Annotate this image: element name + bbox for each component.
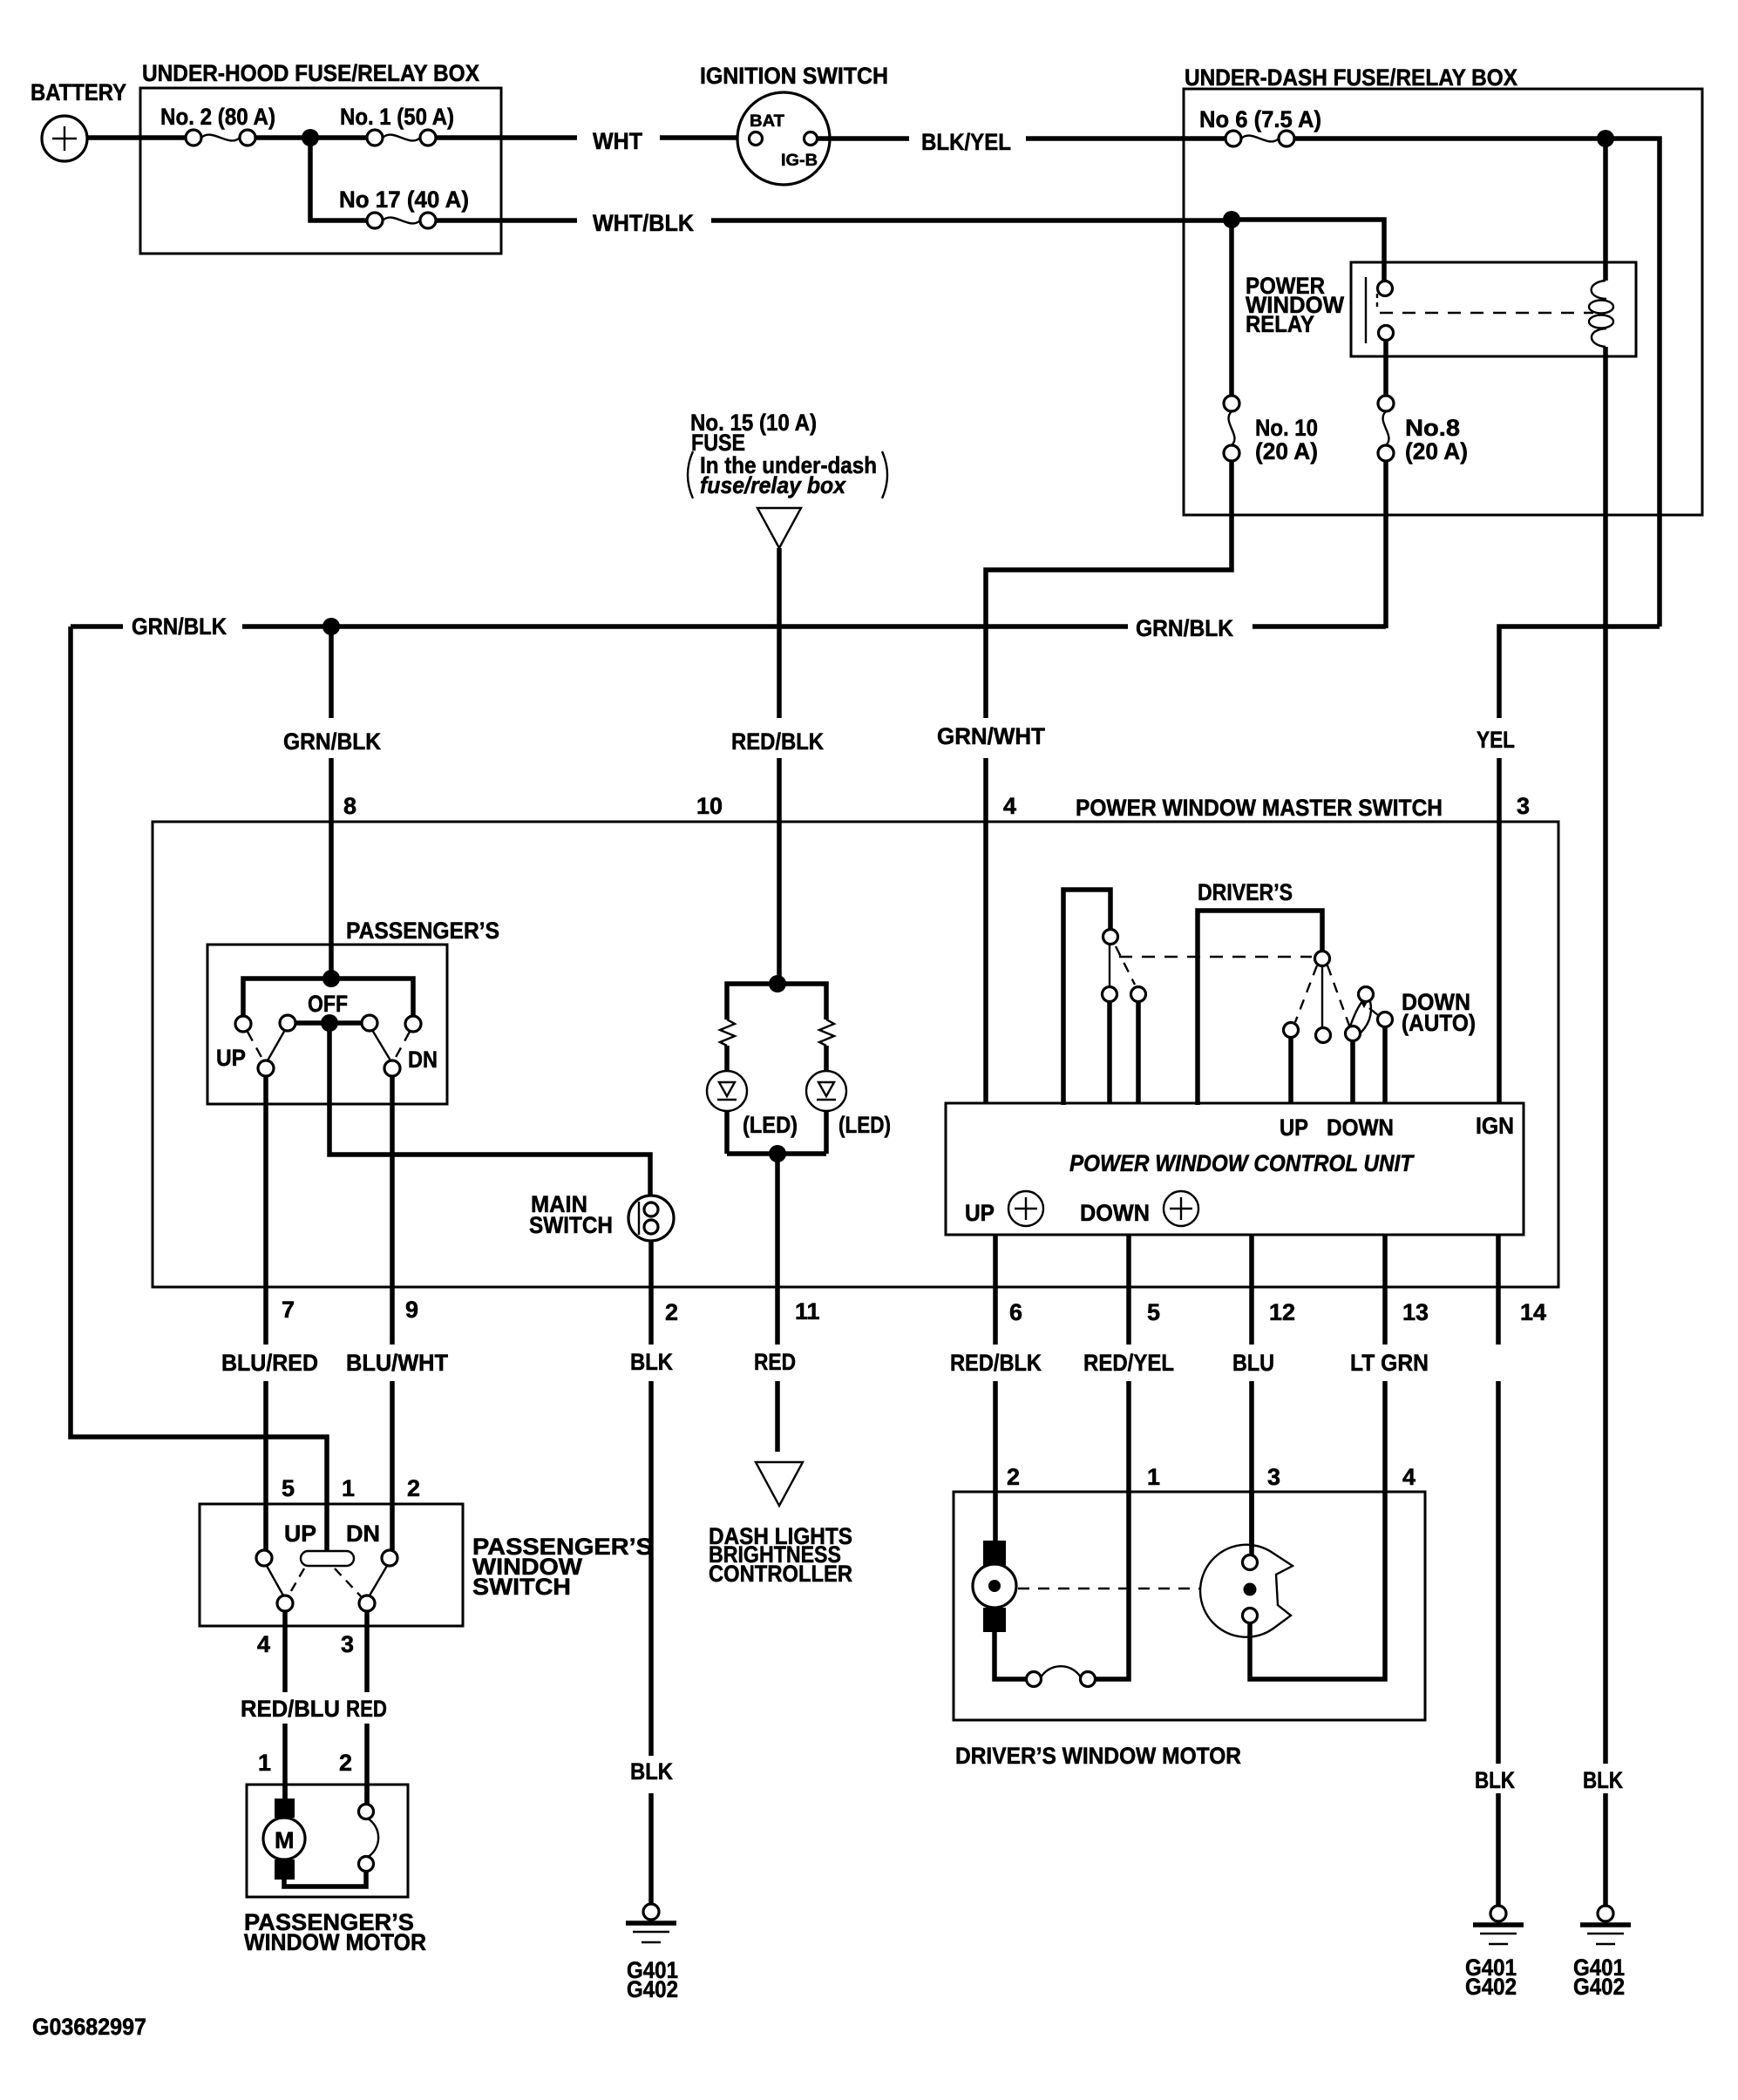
passenger's window switch box [200,1504,463,1626]
fuse note right parenthesis [882,451,887,498]
wire sensor bottom to pin4 [1250,1492,1385,1679]
svg-text:9: 9 [405,1297,418,1323]
wire junction down to fuse No.17 row [310,138,367,220]
svg-text:1: 1 [258,1750,271,1776]
svg-text:DOWN: DOWN [1327,1114,1394,1141]
svg-text:DOWN: DOWN [1080,1200,1150,1226]
svg-text:BLK/YEL: BLK/YEL [921,129,1011,155]
driver sensor circle [1200,1545,1293,1637]
DOWN circle-plus [1164,1191,1198,1226]
svg-text:WHT/BLK: WHT/BLK [593,210,694,236]
wire resistor right to LED [824,1046,829,1071]
ground G401 G402 right [1580,1906,1631,1944]
svg-text:4: 4 [257,1631,270,1657]
wire LT GRN pin13 [1382,1235,1388,1492]
svg-text:3: 3 [341,1631,354,1657]
svg-text:BATTERY: BATTERY [31,79,126,105]
svg-text:BLK: BLK [630,1349,673,1375]
svg-text:OFF: OFF [308,991,348,1017]
fuse No.10 (20 A) [1224,396,1239,461]
driver's switch common contact [1315,952,1330,966]
passenger switch contacts [235,1015,421,1032]
passenger switch lever pivots [258,1060,400,1076]
svg-text:YEL: YEL [1477,727,1515,753]
svg-text:2: 2 [1007,1464,1020,1490]
fuse note left parenthesis [688,451,693,498]
relay coil [1589,281,1613,347]
svg-text:PASSENGER’S: PASSENGER’S [346,918,499,944]
label DOWN (AUTO) [1402,989,1476,1036]
ground G401 G402 center [626,1904,676,1942]
svg-text:UNDER-DASH FUSE/RELAY BOX: UNDER-DASH FUSE/RELAY BOX [1185,64,1517,91]
svg-text:(20 A): (20 A) [1255,438,1318,464]
svg-text:14: 14 [1520,1299,1546,1325]
label G401 G402 right [1573,1954,1625,2000]
window switch lower contacts [277,1595,375,1611]
svg-text:5: 5 [282,1475,295,1501]
svg-text:WHT: WHT [593,128,642,154]
svg-text:4: 4 [1402,1464,1416,1490]
label No. 10 (20 A) [1255,415,1318,464]
svg-text:BLU/WHT: BLU/WHT [346,1350,448,1376]
driver's switch arc arrowhead [1358,997,1370,1008]
driver's switch frame [1198,911,1322,1105]
fuse No.6 (7.5 A) [1225,131,1294,146]
svg-text:1: 1 [342,1475,355,1501]
svg-text:GRN/WHT: GRN/WHT [937,723,1045,749]
svg-text:G402: G402 [1573,1974,1625,2000]
node GRN/BLK junction [322,618,340,635]
wire driver's DOWN contact down [1350,1040,1355,1103]
svg-text:G402: G402 [627,1976,678,2002]
wire main switch down pin2 [648,1241,654,1287]
node junction under-hood [302,129,319,146]
relay dashed link to coil [1380,312,1593,314]
wire RED/BLK pin6 [993,1235,998,1541]
wire WHT [436,135,750,140]
label DASH LIGHTS BRIGHTNESS CONTROLLER [709,1523,852,1587]
wire LED right down [824,1111,829,1154]
label POWER WINDOW RELAY [1246,273,1344,337]
wire relay lower contact to fuse No.8 [1383,340,1388,396]
svg-text:2: 2 [665,1299,678,1325]
svg-text:(LED): (LED) [743,1112,798,1138]
label No.8 (20 A) [1405,415,1468,464]
svg-text:4: 4 [1003,793,1016,819]
svg-text:RED/YEL: RED/YEL [1083,1350,1174,1376]
svg-text:2: 2 [339,1750,352,1776]
svg-text:UP: UP [216,1045,246,1071]
svg-text:G03682997: G03682997 [32,2014,146,2040]
driver motor circle [973,1564,1016,1608]
svg-text:BAT: BAT [750,112,784,131]
svg-text:No 6 (7.5 A): No 6 (7.5 A) [1199,106,1321,132]
svg-text:BLK: BLK [1475,1767,1515,1793]
window switch lever left [267,1566,283,1595]
svg-text:UP: UP [965,1200,995,1226]
passenger switch lever left [268,1030,285,1060]
fuse No.2 (80 A) [186,130,255,146]
driver's switch dashes to UP [1295,965,1317,1022]
wire RED [364,1611,370,1805]
driver's switch arm [1321,966,1323,1027]
svg-text:POWER WINDOW CONTROL UNIT: POWER WINDOW CONTROL UNIT [1069,1150,1415,1176]
passenger switch lever left dashes [248,1032,263,1060]
wire fuse No.2 to junction [255,135,310,140]
wire RED/BLK from fuse triangle [777,548,782,984]
LED left [707,1071,747,1111]
resistor right [819,1020,834,1046]
svg-text:8: 8 [343,793,356,819]
svg-text:DN: DN [346,1521,380,1547]
power window master switch box [153,822,1558,1287]
driver's window motor box [954,1492,1425,1720]
under-dash fuse/relay box [1184,89,1702,515]
svg-text:No. 10: No. 10 [1255,415,1318,441]
node LED top [769,975,786,992]
wire BLK pin14 [1496,1235,1501,1907]
driver motor terminal bottom [983,1608,1006,1632]
svg-text:1: 1 [1147,1464,1160,1490]
wire GRN/BLK branch down to passenger switch [329,627,334,979]
node OFF center [321,1014,338,1032]
wire driver motor bottom [995,1632,1027,1679]
wire RED/YEL pin5 [1126,1235,1131,1492]
driver's switch arc [1350,1001,1371,1036]
wire BLU/RED pin7 [263,1287,268,1550]
svg-text:No 17 (40 A): No 17 (40 A) [339,186,469,213]
wire WHT/BLK junction to relay contact [1232,220,1384,281]
fuse No.15 triangle symbol [757,508,801,548]
passenger auto-switch lower contacts [1103,987,1146,1002]
wire driver motor to pin1 [1095,1492,1129,1679]
passenger auto-switch arm [1109,945,1110,986]
passenger auto-switch dashes [1116,946,1135,985]
wire battery to fuse No.2 [87,135,186,140]
node passenger switch common [322,970,340,987]
svg-text:BLK: BLK [630,1758,673,1785]
svg-text:10: 10 [696,793,723,819]
wire pin1 motor [282,1784,288,1799]
passenger auto-switch common contact [1103,930,1118,945]
ignition switch [737,92,830,185]
label PASSENGER'S WINDOW MOTOR [244,1909,426,1955]
wire pin9 inside box [390,1076,395,1287]
relay contact bar [1365,277,1367,343]
svg-text:GRN/BLK: GRN/BLK [132,613,227,640]
window switch rocker pill [301,1551,354,1566]
battery [42,116,87,161]
svg-text:POWER WINDOW MASTER SWITCH: POWER WINDOW MASTER SWITCH [1076,795,1443,821]
svg-text:IGNITION SWITCH: IGNITION SWITCH [700,63,888,89]
svg-text:SWITCH: SWITCH [472,1574,571,1600]
wire fuse No.10 down to GRN/WHT [986,461,1232,1103]
label G401 G402 center [627,1957,678,2002]
label PASSENGER'S WINDOW SWITCH [472,1534,653,1600]
svg-text:13: 13 [1402,1299,1429,1325]
svg-text:UP: UP [1280,1114,1308,1141]
wire sensor top to pin3 [1249,1492,1254,1556]
svg-text:BLK: BLK [1583,1767,1623,1793]
svg-text:LT GRN: LT GRN [1350,1350,1429,1376]
svg-text:GRN/BLK: GRN/BLK [1136,615,1233,641]
wire passenger switch common bar [243,979,413,1024]
passenger's window motor box [247,1785,408,1897]
window switch side contacts [256,1550,397,1566]
under-hood fuse/relay box [140,88,501,254]
wire pin2 motor [364,1784,370,1805]
wire relay coil up to node A [1603,139,1608,281]
svg-text:UP: UP [284,1521,316,1547]
svg-text:No.8: No.8 [1405,415,1460,441]
fuse No.8 (20 A) [1378,396,1394,461]
wire RED/BLU [282,1611,288,1799]
wire fuse No.6 to node A [1294,136,1606,141]
svg-text:RED/BLK: RED/BLK [731,728,824,755]
svg-text:2: 2 [407,1475,420,1501]
ground G401 G402 left [1473,1906,1524,1944]
svg-text:SWITCH: SWITCH [529,1212,613,1238]
svg-text:BLU/RED: BLU/RED [221,1350,318,1376]
svg-text:DRIVER’S: DRIVER’S [1198,879,1293,905]
svg-text:DRIVER’S WINDOW MOTOR: DRIVER’S WINDOW MOTOR [955,1743,1241,1769]
LED right [806,1071,846,1111]
relay contact pins [1378,281,1394,341]
wire node A to top right corner down [1606,139,1660,627]
svg-text:RED: RED [754,1349,796,1375]
passenger switch lever right [372,1030,390,1060]
driver's switch dashes to DOWN [1327,965,1349,1026]
wire YEL corner [1499,627,1660,1103]
passenger motor breaker contacts [359,1805,374,1872]
wire OFF bridge [295,1020,362,1026]
svg-text:(AUTO): (AUTO) [1402,1010,1476,1036]
wire driver's UP contact down [1288,1037,1293,1103]
svg-text:RED/BLU: RED/BLU [241,1696,340,1722]
svg-text:CONTROLLER: CONTROLLER [709,1561,852,1587]
dash lights triangle [756,1462,803,1506]
passenger's switch box [207,945,447,1104]
wire BLU/WHT pin9 [390,1287,395,1550]
passenger motor bottom wire [284,1871,366,1887]
passenger switch lever right dashes [394,1032,410,1060]
label MAIN SWITCH [529,1191,613,1238]
svg-text:No. 1 (50 A): No. 1 (50 A) [340,104,454,130]
svg-text:12: 12 [1269,1299,1295,1325]
wire GRN/BLK left leg down [71,627,327,1551]
svg-text:RELAY: RELAY [1246,311,1314,337]
svg-text:7: 7 [282,1297,295,1323]
wire BLK/YEL [818,136,1226,141]
fuse No.1 (50 A) [367,130,436,146]
driver motor breaker arc [1041,1666,1081,1677]
window switch lever right dashes [335,1568,361,1596]
power window relay box [1351,262,1636,356]
driver motor dashed link [1018,1588,1200,1589]
power window control unit box [946,1103,1524,1235]
label G401 G402 left [1465,1954,1517,2000]
driver's switch contacts [1284,987,1393,1043]
passenger motor terminal top [275,1799,295,1818]
wire pin11 inside box [775,1154,780,1287]
svg-text:DN: DN [408,1047,438,1073]
wire OFF center to main switch [329,1023,650,1196]
svg-text:IG-B: IG-B [781,152,818,170]
window switch lever right [370,1566,387,1595]
wire BLU pin12 [1249,1235,1254,1548]
driver motor terminal top [983,1541,1006,1567]
svg-text:(20 A): (20 A) [1405,438,1468,464]
wire junction to fuse No.1 [310,135,367,140]
svg-text:IGN: IGN [1476,1113,1514,1139]
wire relay contact to fuse No.10 branch [1229,220,1234,396]
passenger motor breaker arc [368,1819,378,1857]
dashed link to driver's switch [1119,956,1312,958]
wire LED top bracket [727,984,826,1020]
svg-text:6: 6 [1009,1299,1022,1325]
svg-text:M: M [275,1827,295,1853]
svg-text:3: 3 [1267,1464,1280,1490]
UP circle-plus [1008,1191,1043,1226]
passenger motor terminal bottom [275,1860,295,1880]
svg-text:No. 2 (80 A): No. 2 (80 A) [160,104,275,130]
svg-text:WINDOW MOTOR: WINDOW MOTOR [244,1929,426,1955]
driver motor breaker contacts [1027,1672,1096,1687]
fuse No.17 (40 A) [367,213,436,228]
passenger motor M circle [263,1818,305,1860]
svg-text:RED: RED [346,1696,387,1722]
svg-text:G402: G402 [1465,1974,1517,2000]
label No. 15 (10 A) fuse note [690,410,877,498]
passenger auto-switch frame [1063,890,1110,1105]
resistor left [720,1020,735,1046]
wire relay coil down to right ground [1603,347,1608,1905]
wire passenger auto-switch contacts down [1110,1002,1138,1103]
relay armature dashes [1376,294,1378,311]
wire fuse No.8 down to GRN/BLK [1383,461,1388,628]
wire BLK pin2 [648,1287,654,1904]
node A [1597,130,1614,147]
driver's switch arc link [1369,1008,1378,1015]
svg-text:RED/BLK: RED/BLK [950,1350,1042,1376]
svg-text:fuse/relay box: fuse/relay box [700,472,846,498]
wire RED pin11 [775,1287,780,1452]
wire WHT/BLK [436,218,1232,223]
svg-text:11: 11 [795,1298,820,1324]
node LED bottom [769,1145,786,1162]
svg-text:3: 3 [1517,793,1530,819]
svg-text:(LED): (LED) [838,1112,891,1138]
wire GRN/BLK horizontal [71,624,1386,629]
driver sensor contacts [1243,1555,1258,1623]
svg-text:GRN/BLK: GRN/BLK [283,728,381,755]
wire driver's AUTO contact down [1382,1026,1388,1103]
svg-text:UNDER-HOOD FUSE/RELAY BOX: UNDER-HOOD FUSE/RELAY BOX [142,60,479,86]
svg-text:5: 5 [1147,1299,1160,1325]
svg-text:BLU: BLU [1232,1350,1274,1376]
wire resistor left to LED [724,1046,730,1071]
wire LED bottom bracket [727,1151,826,1156]
window switch lever left dashes [289,1568,304,1595]
main switch [628,1196,674,1241]
node WHT/BLK junction [1223,211,1240,228]
wire pin7 inside box [263,1076,268,1287]
wire LED left down [724,1111,730,1154]
